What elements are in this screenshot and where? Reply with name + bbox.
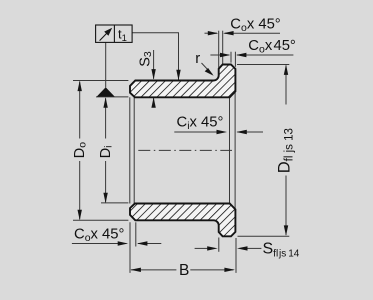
svg-text:Cox 45°: Cox 45° <box>74 226 124 244</box>
svg-text:r: r <box>195 51 200 67</box>
svg-text:Cix 45°: Cix 45° <box>177 114 224 132</box>
svg-text:Cox 45°: Cox 45° <box>230 16 280 34</box>
svg-text:B: B <box>179 262 189 279</box>
svg-text:Cox 45°: Cox 45° <box>248 38 296 56</box>
